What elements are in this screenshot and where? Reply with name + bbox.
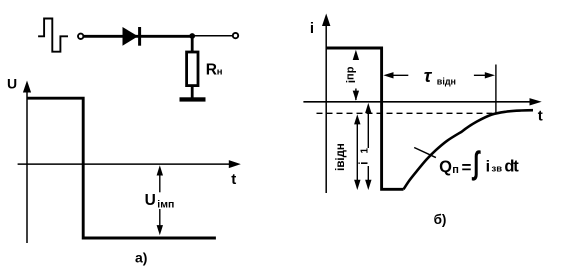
svg-text:i: i xyxy=(310,20,314,37)
svg-text:iвідн: iвідн xyxy=(333,143,347,171)
svg-text:п: п xyxy=(452,164,459,176)
svg-text:а): а) xyxy=(135,249,147,265)
svg-text:зв: зв xyxy=(492,163,503,174)
svg-text:iпр: iпр xyxy=(344,66,358,83)
svg-text:U: U xyxy=(7,75,17,91)
svg-text:н: н xyxy=(217,67,223,78)
svg-text:Q: Q xyxy=(439,158,452,176)
svg-text:б): б) xyxy=(434,212,447,227)
svg-text:i: i xyxy=(486,158,490,175)
svg-text:U: U xyxy=(145,192,156,209)
svg-text:t: t xyxy=(538,107,543,124)
svg-text:t: t xyxy=(231,171,236,188)
svg-text:=: = xyxy=(462,158,472,177)
svg-text:відн: відн xyxy=(437,76,456,86)
svg-text:dt: dt xyxy=(504,157,519,175)
svg-text:R: R xyxy=(206,61,217,78)
svg-text:імп: імп xyxy=(157,199,174,211)
